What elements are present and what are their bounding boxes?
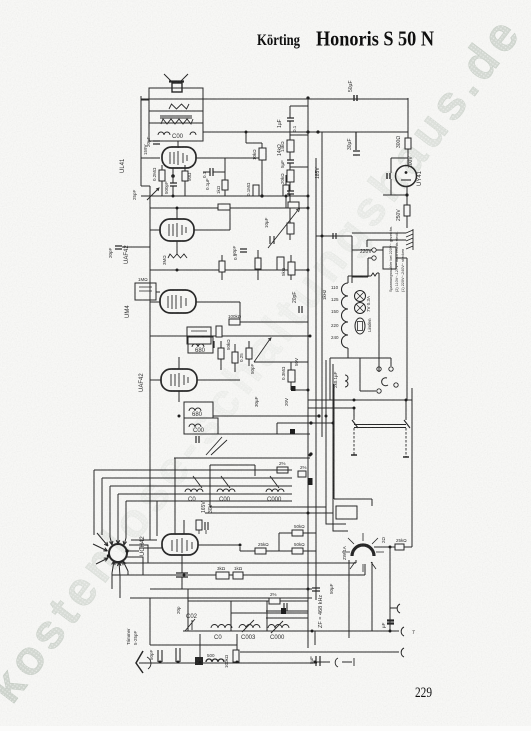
resistor 25k bus feed [288, 370, 295, 382]
resistor 20k [287, 170, 294, 182]
field coil zigzag inside box [169, 104, 189, 109]
resistor 100k [229, 319, 240, 325]
capacitor 50pF [158, 650, 162, 662]
wire row y196 [141, 195, 308, 197]
capacitor [240, 249, 247, 252]
wire rows under [112, 563, 365, 575]
coil C0 [211, 625, 232, 629]
capacitor blob osc [281, 608, 286, 614]
wire from rotary [374, 546, 395, 548]
wire [246, 132, 262, 196]
wire [390, 547, 412, 631]
wire switch bends [127, 540, 157, 575]
terminal bars [351, 455, 409, 457]
wire left rail UL41 [140, 96, 142, 186]
wire [354, 400, 406, 420]
node [389, 546, 392, 549]
wire verticals to osc [157, 458, 175, 536]
wire drops to bottom row [200, 631, 317, 662]
capacitor 50uF [354, 95, 357, 101]
wire tube right [196, 157, 262, 159]
wire row y208 [150, 207, 308, 209]
wire bus 3 [321, 132, 323, 437]
coupling box 1M [135, 283, 156, 300]
resistor 3k [216, 572, 229, 579]
capacitor 5uF [287, 160, 294, 163]
wire selector down [396, 258, 407, 400]
wire box left drop [141, 100, 203, 123]
pickup symbol [335, 658, 354, 667]
wire loom [94, 470, 292, 501]
voltage selector [383, 247, 396, 269]
resistor 200 + cap at UCH42 [196, 520, 202, 530]
resistor 300ohm [405, 138, 411, 149]
resistor 5k [288, 262, 295, 275]
capacitor 0.1uF [333, 233, 336, 239]
resistor 1k ladder [287, 223, 294, 234]
resistor 2% [277, 467, 288, 473]
wire [122, 246, 150, 248]
tube UL41 [162, 147, 196, 168]
wire rows [205, 512, 333, 514]
node [309, 421, 312, 424]
wire coil frame [188, 589, 308, 631]
resistor 2k [404, 205, 410, 216]
zigzag 3M [168, 254, 187, 258]
wire [316, 236, 352, 283]
antenna [136, 651, 143, 673]
wire main bus [307, 98, 309, 648]
capacitor [196, 436, 199, 443]
capacitor 20uF [153, 141, 160, 144]
primary winding zigzag [161, 119, 193, 124]
transformer core lines [160, 116, 192, 118]
resistor cluster [218, 348, 224, 359]
wire row y589 [150, 588, 312, 590]
mains rotary switch contacts [360, 358, 391, 391]
wire right drop [407, 98, 409, 132]
capacitor osc [284, 603, 287, 611]
node blob [290, 429, 295, 434]
plug box [336, 506, 357, 519]
wire power area [330, 273, 391, 400]
wire row y416 [213, 415, 319, 417]
wire rail joint [141, 185, 150, 187]
electrolytic block [387, 621, 394, 624]
resistor [219, 261, 225, 272]
capacitor [287, 118, 294, 121]
node [171, 174, 175, 178]
wire switch drops [112, 571, 128, 598]
capacitor 5uF [316, 656, 320, 666]
wire rotary drops [349, 560, 372, 638]
capacitor [176, 573, 188, 577]
wire bus 2 [315, 158, 317, 600]
heater winding [345, 375, 348, 387]
wire [184, 165, 186, 196]
resistor [255, 258, 261, 269]
selector comb plug [406, 229, 413, 250]
node junction [306, 96, 309, 99]
capacitor in box [213, 341, 215, 348]
wire [317, 661, 330, 663]
spokes [342, 533, 384, 572]
jack 3 [401, 648, 404, 657]
capacitor 15uF ladder [287, 191, 294, 194]
wire [383, 158, 408, 215]
wire row y434 [218, 433, 310, 435]
node [405, 193, 408, 196]
resistor [233, 650, 239, 662]
wire row y458 [174, 457, 310, 459]
wire [150, 357, 240, 402]
wire left rail lower [149, 186, 151, 540]
wire power cord [334, 384, 372, 506]
wire row y336 [150, 335, 310, 337]
tube UY41 [396, 166, 417, 187]
resistor 1k [233, 572, 243, 579]
coil bumps right [190, 132, 196, 135]
capacitor 20pF left [115, 246, 122, 249]
wire row y631 long to jack [183, 630, 399, 632]
wire [285, 175, 287, 208]
resistor 25k 2W [395, 544, 404, 550]
dial lamp 2 [355, 303, 366, 314]
potentiometer arrow [254, 339, 270, 362]
resistor cluster right of tube [255, 548, 266, 554]
capacitor 20pF on bus [299, 306, 302, 313]
coil box C00 below [184, 418, 218, 434]
wire second rail [203, 131, 408, 133]
trimmer arrow [147, 188, 159, 200]
trimmer arrows [206, 437, 227, 455]
wire row y662 [139, 662, 317, 664]
wire heater pair [326, 360, 333, 513]
coil C000 [268, 625, 289, 629]
capacitor 50uF bus [312, 588, 320, 591]
wave switch [109, 544, 127, 562]
wire [222, 250, 291, 280]
wire [240, 533, 316, 551]
coil box [188, 337, 213, 353]
wire plug column [378, 273, 380, 372]
wire [291, 362, 308, 390]
rotary wafer [352, 545, 374, 556]
speaker [164, 74, 188, 81]
wire ladder taps [290, 106, 308, 167]
resistor on bus row208 [288, 202, 299, 208]
coil can 2 [221, 476, 230, 488]
coil box 680 below [184, 402, 213, 418]
switch spokes [93, 533, 139, 576]
wire tube top [177, 141, 179, 148]
capacitor mid [270, 236, 274, 244]
resistor [283, 185, 289, 196]
wire B+ top rail [141, 98, 408, 100]
variable cap C02 [185, 619, 195, 631]
resistor 0.1M row208 [218, 204, 230, 210]
wire row y270 [150, 269, 308, 271]
coil C003 [239, 625, 260, 629]
jack 2 [401, 627, 404, 636]
wire [139, 520, 240, 589]
wire selector [352, 250, 383, 277]
wire osc pack rows [266, 611, 308, 618]
resistor 2% osc [269, 598, 280, 604]
capacitor [176, 648, 180, 662]
wire cathode cluster [162, 165, 173, 196]
grid box [187, 327, 211, 344]
resistor 50 [182, 171, 188, 181]
output transformer primary box [149, 88, 203, 111]
coil can 3 [270, 476, 279, 488]
coil can 1 trimmer [193, 476, 202, 488]
resistor 0.5M vert [277, 257, 284, 270]
dial lamp 1 [355, 291, 366, 302]
node blob IF row [308, 478, 313, 485]
tube UM4 [160, 290, 196, 313]
frame wires [210, 465, 326, 507]
wire [221, 341, 249, 372]
coil C0 bumps [185, 489, 203, 492]
resistor 0.1M [253, 185, 259, 196]
wire tube top/bottom [150, 208, 230, 254]
wire tube to rail [141, 157, 160, 159]
resistor 0.2M below tube [159, 170, 165, 181]
rotary knob c [382, 378, 388, 386]
wire [407, 132, 409, 165]
resistor 14k [287, 140, 294, 152]
capacitor 15uF [387, 173, 390, 179]
tube UCH42 [162, 534, 198, 555]
wire [406, 216, 408, 228]
wire pot to bus [254, 361, 308, 363]
tube UAF42 #2 [161, 369, 197, 391]
wire [203, 158, 225, 196]
wire heater to rotary [326, 507, 348, 531]
secondary box C00 [149, 123, 203, 141]
resistor 1k [222, 180, 228, 190]
tube UAF42 [160, 219, 194, 241]
wire row y650 [240, 651, 399, 653]
pot diagonal 0.35M [268, 209, 300, 249]
coil C00 bumps [158, 132, 170, 135]
node [260, 194, 263, 197]
coil 500 [195, 657, 203, 665]
resistor [216, 326, 222, 337]
mains switch double pole [354, 425, 406, 428]
jack 1 [390, 604, 400, 613]
wire [150, 292, 308, 322]
wire rows lower [130, 598, 312, 645]
wire ladder spine [289, 106, 291, 240]
capacitor 0.1uF [210, 168, 213, 176]
wire y423 [277, 423, 333, 434]
wire rows power [308, 400, 412, 408]
selector feed wires [352, 233, 406, 247]
capacitor 500pF [170, 183, 177, 186]
capacitor 30uF [353, 132, 360, 155]
transformer winding taps [342, 283, 349, 348]
wire right enclosure [411, 388, 413, 547]
resistor 10k/3W [259, 148, 266, 160]
node junction [316, 130, 319, 133]
fuse [355, 318, 365, 334]
